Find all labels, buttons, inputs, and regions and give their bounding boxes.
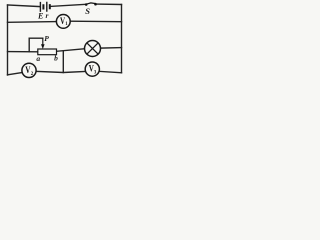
voltmeter V3 <box>85 62 99 76</box>
wire lamp to right border <box>101 47 122 50</box>
switch contact dot left <box>85 3 88 6</box>
wire V2 to junction to V3 <box>36 71 88 72</box>
svg-text:r: r <box>46 11 49 20</box>
right border wire <box>121 5 123 73</box>
svg-text:b: b <box>54 53 58 62</box>
wire left border to V1 <box>8 21 57 24</box>
wire battery to switch <box>50 4 85 6</box>
battery E (two cells) <box>37 2 50 21</box>
lamp L <box>85 41 101 57</box>
wiper P arrowhead <box>41 44 45 49</box>
switch blade <box>86 3 96 4</box>
wire V3 to bottom-right corner <box>100 71 122 72</box>
wire wiper jumper <box>29 38 43 52</box>
wire middle-to-bottom connector <box>62 51 64 73</box>
rheostat body <box>38 49 57 55</box>
wire V1 to right border <box>70 20 121 23</box>
battery long plates <box>40 2 46 12</box>
svg-text:a: a <box>36 54 40 63</box>
rheostat R <box>36 34 58 63</box>
battery short plates <box>43 4 49 9</box>
left border wire <box>7 5 9 75</box>
wire left border to rheostat <box>8 51 38 53</box>
switch S <box>85 3 97 16</box>
svg-text:P: P <box>44 34 49 43</box>
wire bottom-left corner to V2 <box>8 72 24 75</box>
svg-text:E: E <box>37 11 43 20</box>
wire switch to top-right corner <box>96 3 121 5</box>
voltmeter V1 <box>56 15 70 29</box>
lamp cross <box>87 43 98 54</box>
switch contact dot right <box>94 3 97 6</box>
lamp envelope circle <box>85 41 101 57</box>
wire rheostat to lamp <box>57 49 85 52</box>
wire top-left to battery <box>8 5 40 7</box>
svg-text:S: S <box>85 6 90 16</box>
voltmeter V2 <box>22 63 36 77</box>
wiper P stem <box>42 38 44 45</box>
